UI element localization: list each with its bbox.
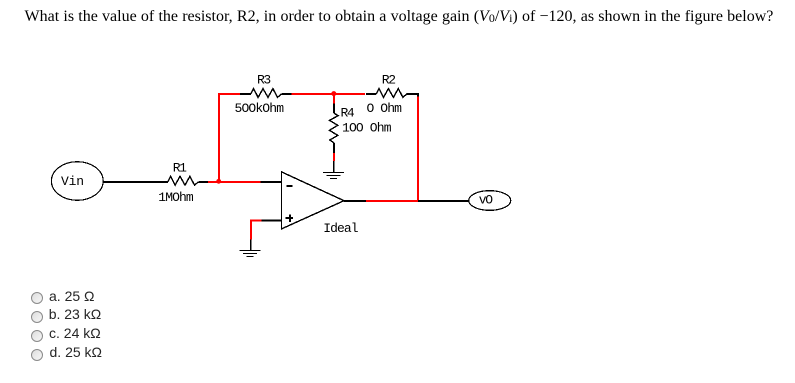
svg-text:Ideal: Ideal	[323, 221, 359, 236]
svg-text:O Ohm: O Ohm	[367, 101, 403, 116]
svg-text:vO: vO	[479, 193, 493, 208]
svg-text:R4: R4	[341, 106, 355, 121]
svg-text:1OO Ohm: 1OO Ohm	[342, 121, 392, 136]
svg-text:R1: R1	[173, 161, 187, 176]
svg-text:R2: R2	[382, 72, 396, 87]
svg-text:R3: R3	[257, 72, 271, 87]
svg-text:1MOhm: 1MOhm	[158, 190, 194, 205]
svg-text:Vin: Vin	[61, 174, 84, 189]
svg-text:5OOkOhm: 5OOkOhm	[235, 101, 285, 116]
